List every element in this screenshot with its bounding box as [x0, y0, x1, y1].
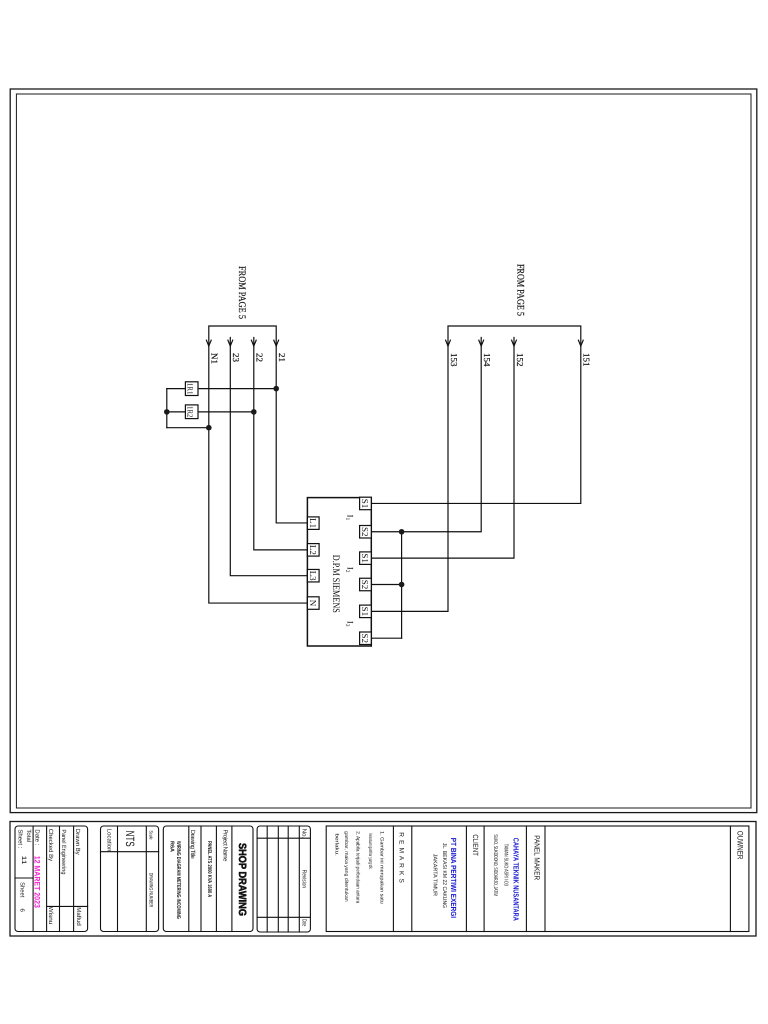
svg-text:JL. BEKASI KM 22 CAKUNG: JL. BEKASI KM 22 CAKUNG [441, 843, 447, 908]
svg-text:gambar, maka yang ditentukan: gambar, maka yang ditentukan [343, 831, 349, 902]
svg-text:S2: S2 [360, 527, 370, 537]
svg-text:Checked By: Checked By [47, 829, 54, 861]
svg-text:Drawing Title: Drawing Title [189, 830, 196, 860]
svg-text:JAKARTA TIMUR: JAKARTA TIMUR [432, 854, 438, 896]
svg-text:1R1: 1R1 [186, 383, 195, 395]
svg-text:N1: N1 [210, 353, 220, 364]
svg-text:22: 22 [255, 353, 265, 362]
svg-text:OUWNER: OUWNER [735, 831, 744, 860]
svg-text:21: 21 [277, 353, 287, 362]
svg-text:S1: S1 [360, 499, 370, 509]
svg-text:Drawn By: Drawn By [74, 829, 81, 855]
svg-text:SUKO, SUKODONO, SIDOARJO, JATI: SUKO, SUKODONO, SIDOARJO, JATIM [492, 834, 498, 896]
svg-text:Total: Total [25, 829, 32, 842]
svg-text:Sheet: Sheet [19, 882, 26, 898]
svg-text:Project Name: Project Name [222, 830, 229, 863]
svg-text:FROM PAGE 5: FROM PAGE 5 [515, 264, 526, 316]
svg-text:CAHAYA TEKNIK NUSANTARA: CAHAYA TEKNIK NUSANTARA [512, 838, 521, 921]
svg-text:23: 23 [231, 353, 241, 363]
svg-text:CLIENT: CLIENT [471, 834, 480, 856]
svg-text:R6A: R6A [169, 841, 175, 852]
svg-text:R E M A R K S: R E M A R K S [398, 832, 405, 883]
svg-text:2. Apabila terjadi perbedaan a: 2. Apabila terjadi perbedaan antara [354, 831, 360, 903]
svg-text:L2: L2 [308, 545, 318, 555]
svg-text:Scale: Scale [148, 831, 154, 840]
svg-text:Panel Engineering: Panel Engineering [60, 829, 67, 874]
svg-text:1. Gambar ini merupakan satu: 1. Gambar ini merupakan satu [379, 831, 385, 904]
svg-text:Location: Location [106, 829, 113, 852]
svg-text:Date :: Date : [34, 829, 41, 845]
svg-text:S2: S2 [360, 580, 370, 590]
svg-text:kesatuan gambar yang tdk.: kesatuan gambar yang tdk. [367, 834, 373, 870]
svg-text:FROM PAGE 5: FROM PAGE 5 [236, 266, 247, 319]
svg-text:11: 11 [20, 856, 27, 866]
svg-text:SHOP DRAWING: SHOP DRAWING [236, 843, 248, 916]
svg-text:S2: S2 [360, 633, 370, 643]
svg-text:Sheet :: Sheet : [17, 829, 24, 848]
svg-text:Date: Date [301, 919, 308, 927]
svg-text:Wisnu: Wisnu [47, 907, 54, 925]
svg-text:1R2: 1R2 [186, 406, 195, 418]
svg-text:L3: L3 [308, 571, 318, 581]
svg-text:151: 151 [582, 353, 592, 367]
svg-text:S1: S1 [360, 607, 370, 617]
svg-text:12 MARET 2023: 12 MARET 2023 [33, 856, 42, 909]
svg-text:N: N [308, 600, 318, 607]
svg-text:PANEL MAKER: PANEL MAKER [533, 835, 542, 880]
svg-text:S1: S1 [360, 553, 370, 563]
svg-text:PT BINA PERTIWI EXERGI: PT BINA PERTIWI EXERGI [449, 838, 458, 918]
svg-text:Revision: Revision [301, 870, 308, 888]
svg-text:berlaku.: berlaku. [334, 834, 340, 856]
svg-text:TAMAN SUKO ASRI I-D3: TAMAN SUKO ASRI I-D3 [503, 844, 509, 886]
svg-text:PANEL ATS 2000 KVA 1600 A: PANEL ATS 2000 KVA 1600 A [206, 841, 212, 897]
svg-text:152: 152 [515, 353, 525, 367]
svg-text:DRAWING NUMBER: DRAWING NUMBER [148, 873, 154, 908]
svg-text:153: 153 [449, 353, 459, 367]
svg-text:D.P.M SIEMENS: D.P.M SIEMENS [330, 555, 341, 613]
svg-text:L1: L1 [308, 518, 318, 528]
svg-text:WIRING DIAGRAM METERING INCOMI: WIRING DIAGRAM METERING INCOMING [175, 841, 181, 919]
svg-text:154: 154 [482, 353, 492, 367]
svg-text:Maftud: Maftud [75, 907, 82, 926]
svg-text:No.: No. [301, 829, 308, 839]
svg-text:NTS: NTS [123, 831, 137, 847]
